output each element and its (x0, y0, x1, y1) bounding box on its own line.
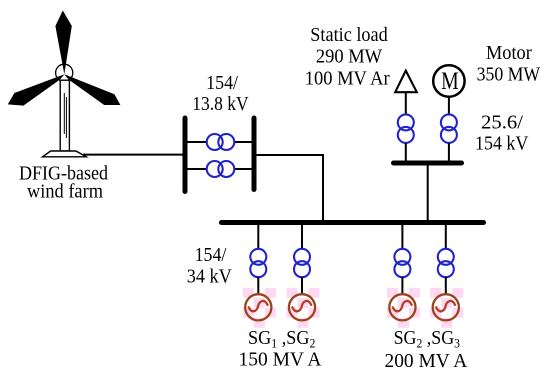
generator SG2 (289, 294, 315, 320)
bus bar left (154 kV side) (183, 118, 188, 192)
wire lower branch (187, 168, 252, 170)
svg-text:13.8 kV: 13.8 kV (192, 93, 249, 115)
wire bus to transformer (445, 224, 447, 249)
generator SG4 (433, 294, 459, 320)
tower inner lines (64, 93, 66, 138)
svg-text:350 MW: 350 MW (477, 64, 541, 86)
wind turbine right blade (64, 74, 120, 105)
wire transformer to generator (445, 277, 447, 294)
transformer T4 (motor) (441, 114, 457, 142)
wire transformer to generator (257, 277, 259, 294)
generator SG1 (245, 294, 271, 320)
svg-text:SG2 ,SG3: SG2 ,SG3 (394, 327, 460, 351)
static load arrow (395, 71, 417, 93)
transformer T6 (294, 249, 310, 277)
generator SG2 background (287, 288, 320, 328)
wire upper branch (187, 141, 252, 143)
svg-text:M: M (441, 68, 459, 95)
svg-text:wind farm: wind farm (27, 180, 103, 202)
generator SG3 (389, 294, 415, 320)
wire bus to transformer (301, 224, 303, 249)
wire bus to main bus (254, 155, 323, 221)
wind turbine top blade (55, 11, 71, 75)
generator SG1 background (243, 288, 276, 328)
wire sub bus to main bus (427, 165, 429, 221)
svg-text:34 kV: 34 kV (187, 266, 232, 288)
svg-text:200 MV A: 200 MV A (385, 350, 468, 372)
svg-text:Static load: Static load (310, 24, 387, 46)
wire bus to transformer (257, 224, 259, 249)
svg-text:100 MV Ar: 100 MV Ar (305, 67, 390, 89)
wire transformer to sub-bus (448, 143, 450, 161)
wire transformer to generator (301, 277, 303, 294)
wire bus to transformer (401, 224, 403, 249)
transformer T1 upper (207, 134, 235, 150)
wire transformer to generator (401, 277, 403, 294)
generator branch 3 (387, 224, 420, 328)
generator branch 2 (287, 224, 320, 328)
bus bar right (13.8 kV side) (252, 118, 257, 190)
generator SG4 background (430, 288, 463, 328)
transformer T3 (load) (398, 114, 414, 142)
wind turbine hub (56, 64, 73, 81)
transformer T2 lower (207, 161, 235, 177)
transformer T5 (250, 249, 266, 277)
svg-text:154 kV: 154 kV (475, 133, 529, 155)
generator branch 1 (243, 224, 276, 328)
svg-text:154/: 154/ (206, 72, 238, 94)
wind turbine tower (60, 80, 69, 151)
svg-text:290 MW: 290 MW (316, 46, 382, 68)
motor M1 (433, 65, 464, 96)
wire wind farm to bus (83, 154, 185, 156)
svg-text:154/: 154/ (195, 244, 227, 266)
sub bus (load/motor) (394, 161, 462, 166)
wire motor to transformer (448, 97, 450, 115)
svg-text:150 MV A: 150 MV A (239, 349, 323, 371)
transformer T8 (438, 249, 454, 277)
transformer T7 (394, 249, 410, 277)
wire load to transformer (405, 92, 407, 114)
svg-text:25.6/: 25.6/ (481, 112, 523, 134)
generator branch 4 (430, 224, 463, 328)
generator SG3 background (387, 288, 420, 328)
svg-text:SG1 ,SG2: SG1 ,SG2 (248, 327, 315, 351)
svg-text:Motor: Motor (486, 42, 532, 64)
wind turbine base (43, 151, 87, 157)
wind turbine left blade (8, 74, 65, 105)
main bus (222, 220, 484, 225)
wire transformer to sub-bus (405, 143, 407, 161)
